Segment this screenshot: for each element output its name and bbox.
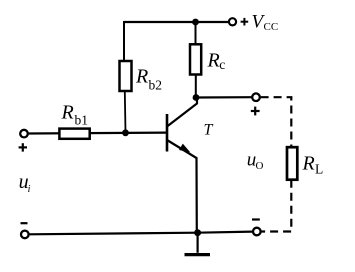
resistor Rb2: [120, 61, 132, 91]
svg-text:R: R: [135, 66, 148, 88]
wire top supply rail: [124, 21, 229, 23]
node collector junction: [193, 94, 200, 101]
wire dashed output top: [261, 97, 292, 147]
svg-text:CC: CC: [264, 21, 279, 33]
transistor T base bar: [166, 114, 169, 152]
terminal input minus: [21, 231, 29, 239]
label minus output: [252, 218, 260, 220]
wire bottom rail: [29, 232, 253, 235]
wire left drop from rail to Rb2: [123, 21, 125, 62]
wire input to base: [28, 132, 167, 135]
resistor RL: [287, 147, 297, 180]
resistor Rb1: [59, 129, 89, 139]
transistor T emitter arrow: [179, 144, 190, 153]
svg-text:b1: b1: [75, 113, 89, 128]
label Rb2: [135, 66, 162, 93]
terminal input plus: [20, 130, 28, 138]
node base junction: [122, 129, 129, 136]
terminal output minus: [253, 228, 261, 236]
svg-text:c: c: [219, 57, 225, 72]
label Rc: [207, 49, 226, 71]
transistor T collector lead: [167, 98, 197, 127]
svg-text:b2: b2: [149, 78, 163, 93]
wire collector to output terminal: [196, 96, 252, 99]
label ui: [19, 171, 31, 195]
label uo: [247, 150, 264, 172]
wire Rc drop from rail: [195, 22, 197, 45]
label plus output: [251, 107, 260, 116]
svg-text:T: T: [204, 121, 214, 138]
resistor Rc: [190, 44, 201, 74]
transistor T emitter lead: [167, 140, 197, 233]
wire Rc bottom to collector node: [195, 75, 197, 98]
terminal output plus: [252, 93, 260, 101]
label RL: [302, 153, 324, 177]
ground: [185, 233, 211, 255]
wire Rb2 bottom to base node: [124, 91, 127, 133]
label +Vcc: [241, 11, 279, 33]
svg-text:O: O: [256, 160, 264, 172]
label minus input: [21, 222, 28, 224]
label Rb1: [61, 101, 89, 127]
svg-text:i: i: [28, 184, 31, 195]
node junction on top rail: [192, 19, 199, 26]
svg-text:R: R: [302, 153, 315, 175]
svg-text:L: L: [315, 162, 323, 177]
node emitter-ground junction: [194, 229, 201, 236]
svg-text:R: R: [61, 101, 74, 123]
label plus input: [19, 143, 27, 151]
wire dashed output bottom: [261, 180, 291, 232]
terminal +Vcc: [229, 18, 236, 25]
svg-text:R: R: [207, 49, 220, 71]
